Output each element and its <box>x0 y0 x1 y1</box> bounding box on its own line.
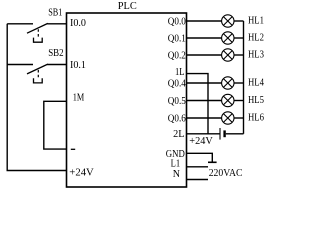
svg-text:HL4: HL4 <box>248 78 264 89</box>
SB2 button cap <box>34 78 43 83</box>
wire Q0.2 to HL3 <box>187 54 222 56</box>
wire Q0.6 to HL6 <box>187 117 222 119</box>
SB1 plunger link (dashed) <box>37 29 39 38</box>
wire 1M loop to M terminal <box>44 101 67 149</box>
svg-text:Q0.4: Q0.4 <box>168 79 186 90</box>
svg-text:N: N <box>173 169 180 180</box>
svg-text:HL2: HL2 <box>248 33 264 44</box>
svg-text:2L: 2L <box>173 129 184 140</box>
wire left +24V rail <box>7 24 66 171</box>
svg-text:1L: 1L <box>175 67 185 78</box>
svg-text:Q0.2: Q0.2 <box>168 51 186 62</box>
wire SB2 right to I0.1 <box>47 64 66 66</box>
wire Q0.1 to HL2 <box>187 37 222 39</box>
wire lamp return bus <box>243 21 245 134</box>
svg-text:Q0.5: Q0.5 <box>168 96 186 107</box>
svg-text:Q0.0: Q0.0 <box>168 17 186 28</box>
svg-text:+24V: +24V <box>189 136 213 147</box>
lamp HL5 <box>222 94 264 106</box>
wire Q0.4 to HL4 <box>187 82 222 84</box>
wire N <box>187 179 209 181</box>
svg-text:+24V: +24V <box>69 167 94 178</box>
svg-text:220VAC: 220VAC <box>209 168 243 179</box>
lamp HL2 <box>222 32 264 44</box>
wire Q0.5 to HL5 <box>187 100 222 102</box>
pushbutton SB1 <box>7 7 66 42</box>
lamp HL1 <box>222 15 264 27</box>
SB1 blade <box>27 23 48 33</box>
svg-text:SB1: SB1 <box>48 7 62 18</box>
svg-text:L1: L1 <box>171 158 181 169</box>
ground symbol <box>208 161 217 163</box>
svg-text:Q0.1: Q0.1 <box>168 34 186 45</box>
SB2 blade <box>27 64 48 74</box>
svg-text:I0.1: I0.1 <box>70 60 86 71</box>
wire SB1 right to I0.0 <box>47 23 66 25</box>
battery GB 24V <box>220 128 225 140</box>
svg-text:Q0.6: Q0.6 <box>168 114 186 125</box>
PLC box U1 <box>67 13 187 187</box>
lamp HL4 <box>222 77 264 89</box>
svg-text:HL3: HL3 <box>248 50 264 61</box>
wire 2L to battery <box>187 133 220 135</box>
svg-text:HL6: HL6 <box>248 113 264 124</box>
svg-text:HL5: HL5 <box>248 95 264 106</box>
lamp HL3 <box>222 49 264 61</box>
wire Q0.0 to HL1 <box>187 20 222 22</box>
wire battery to bus <box>226 133 244 135</box>
svg-text:1M: 1M <box>73 93 85 104</box>
wire SB2 left <box>7 64 33 66</box>
svg-text:SB2: SB2 <box>48 48 63 59</box>
SB1 button cap <box>34 38 43 43</box>
wire 1L common <box>187 74 209 134</box>
SB2 plunger link (dashed) <box>37 70 39 79</box>
wire SB1 left <box>7 23 33 25</box>
wire L1 <box>187 166 209 168</box>
lamp HL6 <box>222 112 264 124</box>
svg-text:HL1: HL1 <box>248 16 264 27</box>
svg-text:PLC: PLC <box>118 1 137 12</box>
wire GND <box>187 153 213 162</box>
svg-text:I0.0: I0.0 <box>70 18 86 29</box>
terminal label - (M) <box>71 148 75 150</box>
pushbutton SB2 <box>7 48 66 83</box>
